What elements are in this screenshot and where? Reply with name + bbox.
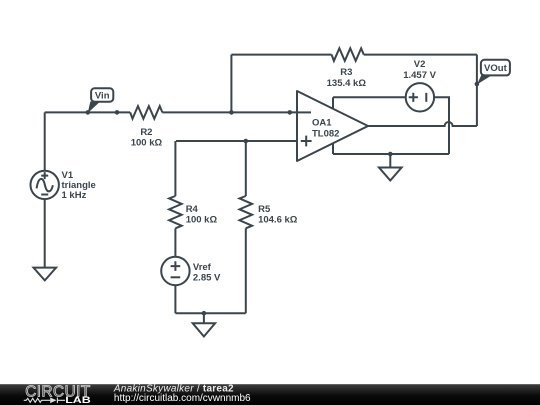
resistor R2 bbox=[130, 106, 162, 148]
svg-text:100 kΩ: 100 kΩ bbox=[186, 214, 218, 225]
svg-text:2.85 V: 2.85 V bbox=[193, 272, 221, 283]
logo resistor squiggle bbox=[24, 398, 51, 402]
node dot feedback junction bbox=[229, 110, 234, 115]
wire bottom rail R4-R5 bbox=[175, 312, 245, 314]
svg-text:http://circuitlab.com/cvwnnmb6: http://circuitlab.com/cvwnnmb6 bbox=[114, 393, 251, 404]
wire right vertical to output bbox=[476, 55, 478, 126]
ground below Vref rail bbox=[193, 313, 215, 336]
svg-text:R4: R4 bbox=[186, 204, 199, 215]
wire op-amp + input bbox=[176, 140, 297, 142]
node dot Vin bbox=[86, 110, 91, 115]
wire main input y=112.4 bbox=[45, 111, 131, 113]
node junction bottom rail bbox=[388, 152, 393, 157]
svg-text:R5: R5 bbox=[258, 204, 271, 215]
wire feedback vertical from node A bbox=[230, 55, 232, 113]
node dot R2 left bbox=[115, 110, 120, 115]
voltage source Vref bbox=[161, 257, 221, 285]
svg-text:LAB: LAB bbox=[65, 395, 91, 405]
svg-text:1 kHz: 1 kHz bbox=[62, 190, 87, 201]
node dot R5 top bbox=[244, 139, 249, 144]
voltage source V2 bbox=[403, 59, 436, 112]
flag VOut bbox=[477, 60, 510, 85]
voltage source V1 triangle bbox=[31, 170, 96, 201]
svg-text:104.6 kΩ: 104.6 kΩ bbox=[258, 214, 298, 225]
wire R4 to Vref bbox=[174, 228, 176, 257]
wire down to R4 bbox=[174, 141, 176, 196]
wire top power rail to V2 bbox=[333, 96, 406, 98]
wire Vref bottom bbox=[174, 285, 176, 313]
resistor R5 bbox=[240, 196, 298, 228]
svg-text:R3: R3 bbox=[340, 67, 352, 78]
op-amp OA1 bbox=[297, 91, 368, 161]
svg-text:135.4 kΩ: 135.4 kΩ bbox=[327, 78, 367, 89]
wire down to R5 bbox=[245, 141, 247, 196]
svg-text:1.457 V: 1.457 V bbox=[403, 70, 436, 81]
svg-text:OA1: OA1 bbox=[312, 118, 332, 129]
ground below power rail bbox=[379, 154, 402, 181]
wire R5 bottom bbox=[245, 228, 247, 313]
svg-text:VOut: VOut bbox=[484, 63, 508, 74]
svg-text:Vin: Vin bbox=[95, 91, 110, 102]
node dot op-amp input bbox=[288, 110, 293, 115]
wire op-amp V+ pin vertical (behind op-amp) bbox=[332, 97, 334, 154]
wire V1 bottom to ground bbox=[44, 199, 46, 268]
svg-text:V2: V2 bbox=[414, 59, 426, 70]
resistor R3 bbox=[231, 48, 477, 89]
resistor R4 bbox=[169, 196, 217, 228]
wire op-amp output with hop over power rail bbox=[368, 122, 477, 126]
node dot VOut bbox=[475, 82, 480, 87]
node dot ground bbox=[202, 311, 207, 316]
svg-text:100 kΩ: 100 kΩ bbox=[131, 137, 163, 148]
ground below V1 bbox=[34, 268, 57, 281]
wire R2 to op-amp inverting input bbox=[162, 111, 297, 113]
wire V1 top to main node bbox=[44, 112, 46, 171]
wire V2 right to corner down bbox=[434, 97, 449, 154]
logo diode bbox=[50, 398, 56, 404]
wire bottom power rail bbox=[333, 153, 449, 155]
footer bar bbox=[0, 384, 540, 405]
svg-text:TL082: TL082 bbox=[312, 128, 339, 139]
flag Vin bbox=[88, 88, 114, 113]
